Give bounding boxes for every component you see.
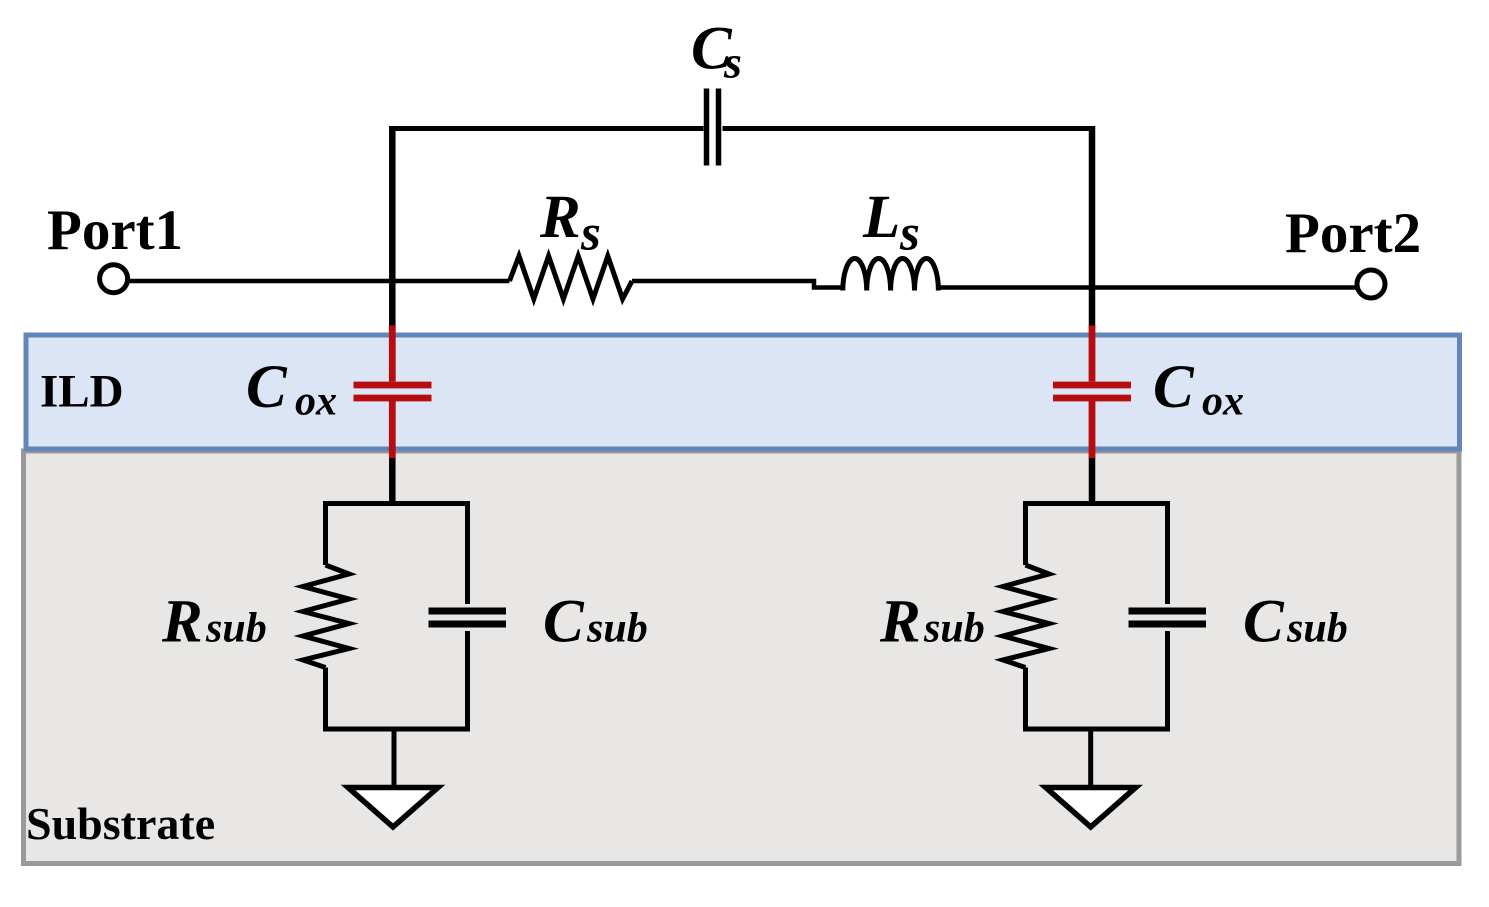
svg-text:ILD: ILD (40, 366, 124, 418)
svg-text:sub: sub (1286, 606, 1348, 652)
svg-text:C: C (1153, 354, 1195, 421)
svg-text:sub: sub (923, 606, 985, 652)
svg-text:sub: sub (205, 606, 267, 652)
svg-text:C: C (246, 354, 288, 421)
svg-text:s: s (723, 37, 742, 88)
svg-text:sub: sub (586, 606, 648, 652)
svg-text:Substrate: Substrate (26, 798, 215, 849)
svg-text:C: C (1243, 589, 1285, 656)
svg-text:Port2: Port2 (1285, 202, 1421, 265)
svg-text:ox: ox (295, 379, 337, 425)
svg-text:R: R (161, 589, 203, 656)
svg-text:C: C (543, 589, 585, 656)
svg-text:L: L (862, 184, 900, 251)
svg-text:R: R (539, 184, 581, 251)
svg-text:R: R (879, 589, 921, 656)
svg-text:s: s (899, 206, 920, 262)
svg-text:Port1: Port1 (47, 199, 183, 262)
svg-text:ox: ox (1202, 379, 1244, 425)
svg-text:s: s (580, 206, 601, 262)
